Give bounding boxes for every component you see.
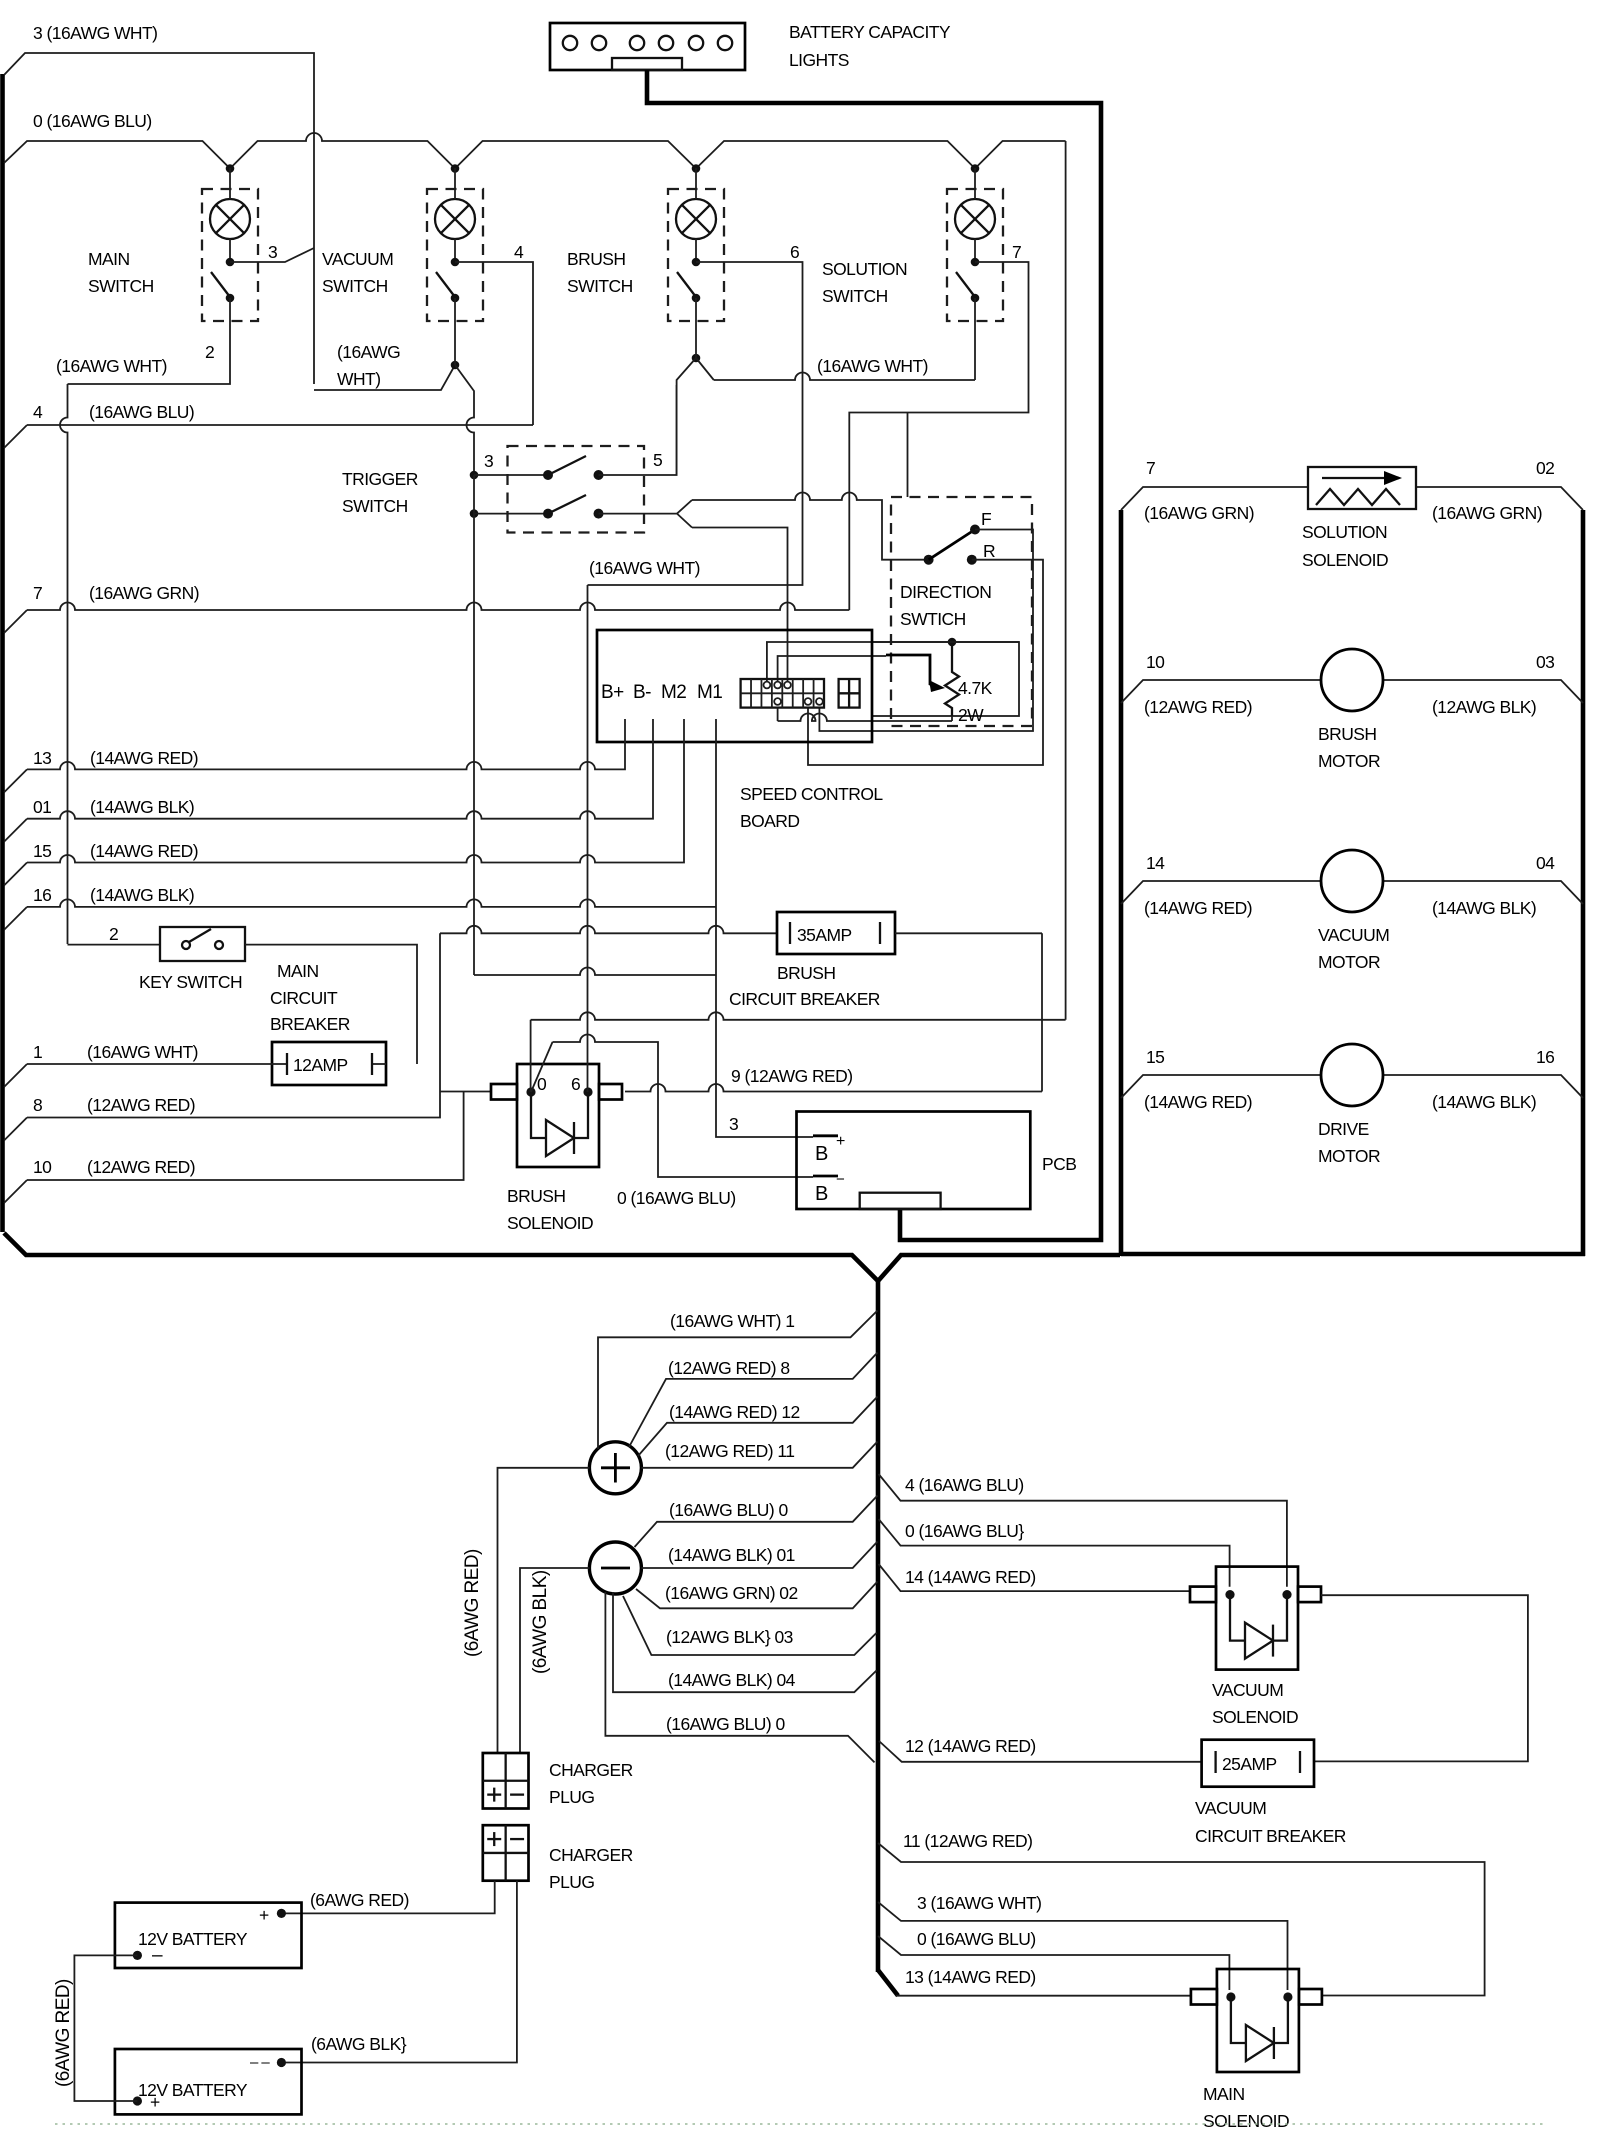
svg-text:(16AWG WHT): (16AWG WHT) — [589, 558, 700, 578]
vacuum switch bottom junction — [451, 321, 474, 475]
svg-text:B-: B- — [633, 682, 651, 703]
svg-text:(14AWG BLK): (14AWG BLK) — [90, 797, 194, 817]
wire (14AWG RED) 12 — [638, 1397, 878, 1457]
M1 pin wire 16 — [4, 885, 716, 930]
svg-text:(14AWG BLK): (14AWG BLK) — [90, 885, 194, 905]
svg-text:VACUUM: VACUUM — [322, 249, 393, 269]
svg-text:35AMP: 35AMP — [797, 925, 852, 945]
solution solenoid — [1302, 467, 1416, 570]
svg-text:(16AWG GRN) 02: (16AWG GRN) 02 — [665, 1583, 798, 1603]
12V battery 1 — [115, 1903, 302, 1968]
wire 9 (12AWG RED) — [625, 1066, 1042, 1092]
svg-text:(12AWG RED) 8: (12AWG RED) 8 — [668, 1358, 790, 1378]
wire 8 (12AWG RED) — [4, 933, 440, 1140]
battery negative terminal circle — [589, 1542, 641, 1594]
svg-text:(12AWG RED): (12AWG RED) — [87, 1157, 195, 1177]
svg-text:0 (16AWG BLU): 0 (16AWG BLU) — [33, 111, 152, 131]
svg-text:16: 16 — [33, 885, 51, 905]
svg-text:(16AWG: (16AWG — [337, 342, 400, 362]
wire trigger to speed board connector — [692, 528, 788, 682]
wire 0 (16AWG BLU) lamp bus — [4, 111, 1066, 169]
main switch terminal 2 wire down-left — [68, 321, 231, 384]
wire 3 (16AWG WHT) to main solenoid — [878, 1893, 1288, 1990]
PCB B+ terminal — [813, 1133, 845, 1165]
svg-text:MOTOR: MOTOR — [1318, 1146, 1380, 1166]
potentiometer element — [945, 638, 959, 716]
svg-text:(6AWG BLK): (6AWG BLK) — [530, 1570, 551, 1674]
stub vertical on 7 wire — [907, 413, 909, 498]
svg-text:SPEED CONTROL: SPEED CONTROL — [740, 784, 883, 804]
battery positive terminal circle — [589, 1442, 641, 1494]
svg-text:16: 16 — [1536, 1047, 1554, 1067]
svg-text:BATTERY CAPACITY: BATTERY CAPACITY — [789, 22, 951, 42]
wire (16AWG BLU) 0 lower — [605, 1592, 874, 1762]
svg-text:BRUSH: BRUSH — [777, 963, 836, 983]
svg-text:– –: – – — [250, 2054, 270, 2071]
connector pins — [741, 679, 824, 708]
PCB bottom tab — [860, 1193, 941, 1209]
vacuum breaker labels — [1195, 1798, 1346, 1846]
svg-text:13: 13 — [33, 748, 51, 768]
svg-text:MAIN: MAIN — [277, 961, 319, 981]
battery capacity lights connector — [550, 22, 951, 70]
svg-text:R: R — [983, 541, 995, 561]
svg-text:03: 03 — [1536, 652, 1554, 672]
battery lights thick wire to PCB — [647, 70, 1101, 1240]
brush switch label — [567, 249, 633, 296]
solution solenoid row labels — [1144, 458, 1554, 523]
brush solenoid — [491, 1064, 622, 1233]
pin 6 net vertical (brush switch to solenoid) — [587, 585, 589, 1092]
vacuum solenoid — [1190, 1567, 1321, 1727]
svg-text:(16AWG GRN): (16AWG GRN) — [89, 583, 199, 603]
svg-text:M1: M1 — [697, 682, 722, 703]
svg-text:DIRECTION: DIRECTION — [900, 582, 991, 602]
svg-text:(16AWG WHT): (16AWG WHT) — [56, 356, 167, 376]
right box left bar — [1119, 510, 1124, 1256]
wire 11 (12AWG RED) — [878, 1831, 1485, 1996]
svg-text:LIGHTS: LIGHTS — [789, 50, 849, 70]
svg-text:B+: B+ — [601, 682, 624, 703]
svg-text:PLUG: PLUG — [549, 1787, 594, 1807]
svg-text:4.7K: 4.7K — [958, 678, 993, 698]
trigger vertical net down to M1/B+ — [474, 475, 716, 975]
vacuum switch lamp+contact S2 — [427, 168, 524, 321]
direction switch common + blade — [924, 530, 975, 565]
svg-text:BOARD: BOARD — [740, 811, 799, 831]
charger plug 2 — [483, 1825, 633, 1892]
svg-text:SOLENOID: SOLENOID — [1203, 2111, 1289, 2129]
svg-text:2: 2 — [109, 924, 118, 944]
svg-text:SOLENOID: SOLENOID — [1302, 550, 1388, 570]
svg-text:(16AWG WHT): (16AWG WHT) — [817, 356, 928, 376]
key switch — [68, 924, 246, 992]
svg-text:(14AWG BLK): (14AWG BLK) — [1432, 1092, 1536, 1112]
battery series link wire — [74, 1955, 137, 2101]
svg-text:DRIVE: DRIVE — [1318, 1119, 1369, 1139]
svg-text:(14AWG BLK) 04: (14AWG BLK) 04 — [668, 1670, 796, 1690]
key switch to main breaker wire — [245, 945, 417, 1064]
right box right bar — [1581, 510, 1586, 1256]
svg-text:(12AWG BLK} 03: (12AWG BLK} 03 — [666, 1627, 793, 1647]
svg-text:(16AWG WHT): (16AWG WHT) — [87, 1042, 198, 1062]
vacuum switch terminal 4 wire — [455, 262, 533, 425]
B- pin wire 01 — [4, 719, 653, 842]
solution solenoid row wire — [1121, 487, 1583, 510]
wire (16AWG WHT) 1 — [598, 1311, 878, 1450]
svg-text:3 (16AWG WHT): 3 (16AWG WHT) — [33, 23, 157, 43]
svg-text:WHT): WHT) — [337, 369, 380, 389]
wire 4 (16AWG BLU) — [4, 402, 533, 448]
svg-text:CIRCUIT BREAKER: CIRCUIT BREAKER — [1195, 1826, 1346, 1846]
wire 1 (16AWG WHT) — [4, 1042, 272, 1087]
speed board terminal letters — [601, 682, 722, 703]
wire 0 (16AWG BLU) to main solenoid — [878, 1929, 1229, 1990]
svg-text:–: – — [152, 1945, 163, 1966]
svg-text:(16AWG GRN): (16AWG GRN) — [1432, 503, 1542, 523]
svg-text:SWITCH: SWITCH — [342, 496, 408, 516]
4.7K 2W potentiometer box — [872, 642, 1019, 725]
brush switch terminal 6 wire down to y585 — [588, 262, 803, 585]
main solenoid — [1191, 1969, 1322, 2129]
svg-text:CHARGER: CHARGER — [549, 1760, 633, 1780]
wire 8 branch to brush solenoid — [440, 1091, 492, 1093]
svg-text:13 (14AWG RED): 13 (14AWG RED) — [905, 1967, 1036, 1987]
svg-text:14: 14 — [1146, 853, 1165, 873]
svg-text:(12AWG RED): (12AWG RED) — [1144, 697, 1252, 717]
wire (16AWG GRN) 02 — [636, 1582, 878, 1609]
svg-text:+: + — [836, 1133, 845, 1150]
svg-text:7: 7 — [1146, 458, 1155, 478]
svg-text:VACUUM: VACUUM — [1318, 925, 1389, 945]
trigger switch labels — [342, 450, 662, 516]
trunk to lower section — [876, 1278, 881, 1972]
svg-text:PCB: PCB — [1042, 1154, 1076, 1174]
svg-text:8: 8 — [33, 1095, 42, 1115]
svg-text:SOLENOID: SOLENOID — [1212, 1707, 1298, 1727]
svg-text:(12AWG BLK): (12AWG BLK) — [1432, 697, 1536, 717]
svg-text:SOLUTION: SOLUTION — [1302, 522, 1387, 542]
svg-text:2W: 2W — [958, 705, 984, 725]
direction switch R contact + return — [808, 555, 1043, 765]
wire (12AWG BLK) 03 — [623, 1596, 877, 1655]
svg-text:7: 7 — [1012, 242, 1021, 262]
svg-text:KEY SWITCH: KEY SWITCH — [139, 972, 242, 992]
svg-text:VACUUM: VACUUM — [1212, 1680, 1283, 1700]
wire 14 (14AWG RED) to vacuum solenoid — [879, 1564, 1190, 1591]
svg-text:+: + — [259, 1905, 269, 1925]
bottom page dotted line — [55, 2123, 1545, 2125]
pot bottom wire from connector — [778, 707, 952, 721]
svg-text:CIRCUIT: CIRCUIT — [270, 988, 338, 1008]
wire 0 to PCB B- — [531, 1035, 813, 1209]
svg-text:3: 3 — [729, 1114, 738, 1134]
svg-text:(16AWG BLU) 0: (16AWG BLU) 0 — [666, 1714, 785, 1734]
svg-text:12 (14AWG RED): 12 (14AWG RED) — [905, 1736, 1036, 1756]
svg-text:(16AWG GRN): (16AWG GRN) — [1144, 503, 1254, 523]
svg-text:2: 2 — [205, 342, 214, 362]
svg-text:7: 7 — [33, 583, 42, 603]
brush breaker output down to wire 9 — [895, 933, 1042, 1091]
svg-text:02: 02 — [1536, 458, 1554, 478]
vacuum circuit breaker 25AMP — [1202, 1740, 1314, 1787]
left harness bus bar — [0, 74, 5, 1232]
vacuum switch label — [322, 249, 393, 296]
svg-text:1: 1 — [33, 1042, 42, 1062]
small aux connector 2x2 — [839, 679, 860, 708]
svg-text:3: 3 — [484, 451, 493, 471]
direction switch F contact + return — [819, 525, 1033, 732]
svg-text:BRUSH: BRUSH — [1318, 724, 1377, 744]
harness bottom edge with funnel — [4, 1233, 1120, 1281]
svg-text:04: 04 — [1536, 853, 1555, 873]
wire 13 (14AWG RED) trunk end — [878, 1967, 1190, 1996]
rotated label (6AWG RED) left — [53, 1979, 74, 2087]
svg-text:15: 15 — [1146, 1047, 1164, 1067]
svg-text:11 (12AWG RED): 11 (12AWG RED) — [903, 1831, 1032, 1851]
svg-text:14 (14AWG RED): 14 (14AWG RED) — [905, 1567, 1036, 1587]
solution switch lamp+contact S4 — [947, 168, 1021, 321]
brush switch bottom junction — [677, 321, 714, 475]
wire 12 (14AWG RED) — [879, 1736, 1202, 1762]
battery - to charger plug wire (6AWG BLK) — [520, 1568, 589, 1753]
svg-text:4 (16AWG BLU): 4 (16AWG BLU) — [905, 1475, 1024, 1495]
solution switch terminal 7 wire — [849, 262, 1028, 610]
svg-text:M2: M2 — [661, 682, 686, 703]
brush breaker labels — [729, 963, 880, 1009]
svg-text:SWITCH: SWITCH — [822, 286, 888, 306]
trigger switch pole 2 — [470, 495, 677, 519]
svg-text:(14AWG RED): (14AWG RED) — [1144, 1092, 1252, 1112]
svg-text:B: B — [815, 1183, 828, 1205]
svg-text:12AMP: 12AMP — [293, 1055, 348, 1075]
wire brush junction to solution switch bottom — [714, 321, 975, 380]
wire 7 (16AWG GRN) — [4, 583, 849, 633]
PCB box — [797, 1112, 1077, 1210]
wire (12AWG RED) 11 — [641, 1441, 877, 1468]
svg-text:(14AWG RED) 12: (14AWG RED) 12 — [669, 1402, 800, 1422]
vacuum solenoid output loop to breaker — [1314, 1595, 1528, 1761]
wire (16AWG BLU) 0 — [635, 1496, 878, 1548]
wire (14AWG BLK) 04 — [613, 1592, 877, 1692]
svg-text:MOTOR: MOTOR — [1318, 952, 1380, 972]
svg-text:VACUUM: VACUUM — [1195, 1798, 1266, 1818]
svg-text:(16AWG BLU): (16AWG BLU) — [89, 402, 194, 422]
speed control board box — [597, 630, 883, 831]
svg-text:9 (12AWG RED): 9 (12AWG RED) — [731, 1066, 853, 1086]
svg-text:SOLUTION: SOLUTION — [822, 259, 907, 279]
svg-text:0 (16AWG BLU}: 0 (16AWG BLU} — [905, 1521, 1024, 1541]
wire (12AWG RED) 8 — [629, 1353, 878, 1448]
svg-text:F: F — [981, 509, 991, 529]
M2 pin wire 15 — [4, 719, 684, 886]
brush circuit breaker 35AMP — [777, 912, 895, 954]
wire 0 (16AWG BLU) to vacuum solenoid — [879, 1519, 1230, 1587]
main switch label — [88, 249, 154, 296]
junction dots on lamp bus — [226, 164, 980, 173]
svg-text:4: 4 — [514, 242, 524, 262]
svg-text:+: + — [150, 2092, 160, 2112]
wire (16AWG WHT) label main sw — [56, 356, 167, 376]
charger plug 2 to battery 1 + — [281, 1881, 494, 1914]
svg-text:01: 01 — [33, 797, 51, 817]
svg-text:(12AWG RED): (12AWG RED) — [87, 1095, 195, 1115]
trigger output fork — [677, 500, 692, 528]
svg-text:(14AWG BLK) 01: (14AWG BLK) 01 — [668, 1545, 795, 1565]
brush motor M-BR — [1121, 649, 1583, 771]
wire 3 (16AWG WHT) top bus — [4, 23, 455, 390]
potentiometer wiper arrow — [778, 655, 945, 692]
wire 4 (16AWG BLU) to vacuum solenoid — [879, 1474, 1287, 1587]
wire 5 to direction switch — [692, 493, 924, 560]
svg-text:4: 4 — [33, 402, 43, 422]
svg-text:(14AWG BLK): (14AWG BLK) — [1432, 898, 1536, 918]
svg-text:(6AWG RED): (6AWG RED) — [53, 1979, 74, 2087]
charger plug 2 to battery 2 - — [281, 1881, 517, 2063]
svg-text:0: 0 — [537, 1074, 547, 1094]
trigger switch dashed box — [508, 446, 645, 533]
svg-text:BREAKER: BREAKER — [270, 1014, 350, 1034]
svg-text:MOTOR: MOTOR — [1318, 751, 1380, 771]
trigger switch pole 1 — [470, 385, 677, 480]
svg-text:B: B — [815, 1143, 828, 1165]
svg-text:SWTICH: SWTICH — [900, 609, 966, 629]
pot top feed from connector — [767, 642, 1019, 681]
svg-text:25AMP: 25AMP — [1222, 1754, 1277, 1774]
main circuit breaker labels — [270, 961, 350, 1034]
svg-text:10: 10 — [1146, 652, 1165, 672]
svg-text:5: 5 — [653, 450, 662, 470]
wire 10 (12AWG RED) — [4, 1092, 464, 1204]
svg-text:10: 10 — [33, 1157, 52, 1177]
svg-text:TRIGGER: TRIGGER — [342, 469, 418, 489]
svg-text:SOLENOID: SOLENOID — [507, 1213, 593, 1233]
(16AWG WHT) label under vacuum switch — [337, 342, 400, 389]
svg-text:MAIN: MAIN — [88, 249, 130, 269]
12V battery 2 — [115, 2049, 302, 2114]
svg-text:(6AWG RED): (6AWG RED) — [310, 1890, 409, 1910]
svg-text:6: 6 — [571, 1074, 580, 1094]
svg-text:SWITCH: SWITCH — [88, 276, 154, 296]
drive motor M-DRV — [1121, 1044, 1583, 1166]
wire 0 vertical to brush solenoid pin 0 net — [1065, 141, 1067, 1020]
35AMP brush circuit breaker feed — [440, 926, 777, 933]
direction switch labels — [900, 509, 995, 629]
svg-text:PLUG: PLUG — [549, 1872, 594, 1892]
main switch terminal 3 wire to bus 314 — [230, 248, 314, 262]
(16AWG WHT) label mid — [817, 356, 928, 376]
svg-text:(6AWG BLK}: (6AWG BLK} — [311, 2034, 407, 2054]
solution switch label — [822, 259, 907, 306]
svg-text:CHARGER: CHARGER — [549, 1845, 633, 1865]
svg-text:15: 15 — [33, 841, 51, 861]
direction switch dashed box — [891, 497, 1032, 726]
svg-text:(6AWG RED): (6AWG RED) — [462, 1549, 483, 1657]
right box bottom edge — [1121, 1252, 1585, 1257]
PCB B- terminal — [813, 1171, 845, 1205]
brush switch lamp+contact S3 — [668, 168, 799, 321]
svg-text:(14AWG RED): (14AWG RED) — [90, 841, 198, 861]
rotated label (6AWG BLK) — [530, 1570, 551, 1674]
battery + to charger plug wire (6AWG RED) — [498, 1468, 590, 1753]
svg-text:BRUSH: BRUSH — [507, 1186, 566, 1206]
svg-text:3 (16AWG WHT): 3 (16AWG WHT) — [917, 1893, 1041, 1913]
wire (14AWG BLK) 01 — [641, 1542, 877, 1569]
B+ pin wire 13 — [4, 719, 625, 792]
main circuit breaker 12AMP — [272, 1042, 386, 1085]
brush solenoid pin0 feed from lamp bus — [531, 1012, 1066, 1092]
svg-text:(14AWG RED): (14AWG RED) — [90, 748, 198, 768]
M1 / PCB-3 vertical — [716, 719, 813, 1137]
svg-text:(12AWG RED) 11: (12AWG RED) 11 — [665, 1441, 794, 1461]
main switch lamp+contact S1 — [202, 168, 277, 321]
svg-text:6: 6 — [790, 242, 799, 262]
svg-text:(14AWG RED): (14AWG RED) — [1144, 898, 1252, 918]
svg-text:CIRCUIT BREAKER: CIRCUIT BREAKER — [729, 989, 880, 1009]
rotated label (6AWG RED) — [462, 1549, 483, 1657]
svg-text:−: − — [836, 1171, 845, 1188]
vertical from main sw term2 to key switch — [60, 384, 68, 944]
svg-text:(16AWG WHT) 1: (16AWG WHT) 1 — [670, 1311, 794, 1331]
svg-text:0 (16AWG BLU): 0 (16AWG BLU) — [917, 1929, 1036, 1949]
label 16AWG WHT trigger area — [589, 558, 700, 578]
svg-text:SWITCH: SWITCH — [567, 276, 633, 296]
svg-text:SWITCH: SWITCH — [322, 276, 388, 296]
svg-text:3: 3 — [268, 242, 277, 262]
svg-text:(16AWG BLU) 0: (16AWG BLU) 0 — [669, 1500, 788, 1520]
svg-text:BRUSH: BRUSH — [567, 249, 626, 269]
vacuum motor M-VAC — [1121, 850, 1583, 972]
svg-text:MAIN: MAIN — [1203, 2084, 1245, 2104]
charger plug 1 — [483, 1753, 633, 1809]
svg-text:0 (16AWG BLU): 0 (16AWG BLU) — [617, 1188, 736, 1208]
